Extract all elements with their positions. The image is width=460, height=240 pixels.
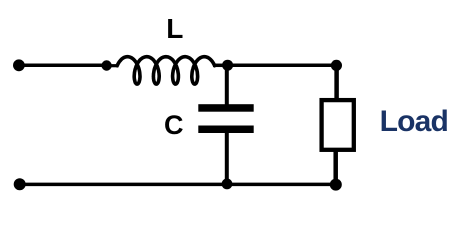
node A (L-C junction on top rail) <box>222 60 233 71</box>
wire (inductor exit to junction node) <box>213 64 228 68</box>
wire (bottom rail) <box>20 183 336 187</box>
node (capacitor-bottom rail junction) <box>222 179 233 190</box>
wire (top rail from junction to load) <box>228 64 337 68</box>
wire (top-left input segment) <box>19 64 106 68</box>
capacitor C bottom plate <box>198 126 253 134</box>
svg-text:C: C <box>164 110 184 140</box>
node (load top junction) <box>331 60 342 71</box>
wire (capacitor top lead) <box>225 65 229 105</box>
wire (stub from input node to inductor) <box>107 64 119 67</box>
svg-text:L: L <box>166 13 183 44</box>
load resistor box <box>322 100 354 150</box>
wire (load bottom lead) <box>333 149 338 185</box>
capacitor C top plate <box>198 104 253 112</box>
svg-text:Load: Load <box>380 105 448 138</box>
node (load bottom junction) <box>330 179 342 191</box>
node (bottom-left terminal) <box>14 178 26 190</box>
wire (load top lead) <box>334 65 339 99</box>
node (top-left input terminal) <box>13 59 25 71</box>
node (inductor input junction) <box>101 60 111 70</box>
inductor L (coil) <box>117 57 214 84</box>
wire (capacitor bottom lead) <box>225 133 229 185</box>
